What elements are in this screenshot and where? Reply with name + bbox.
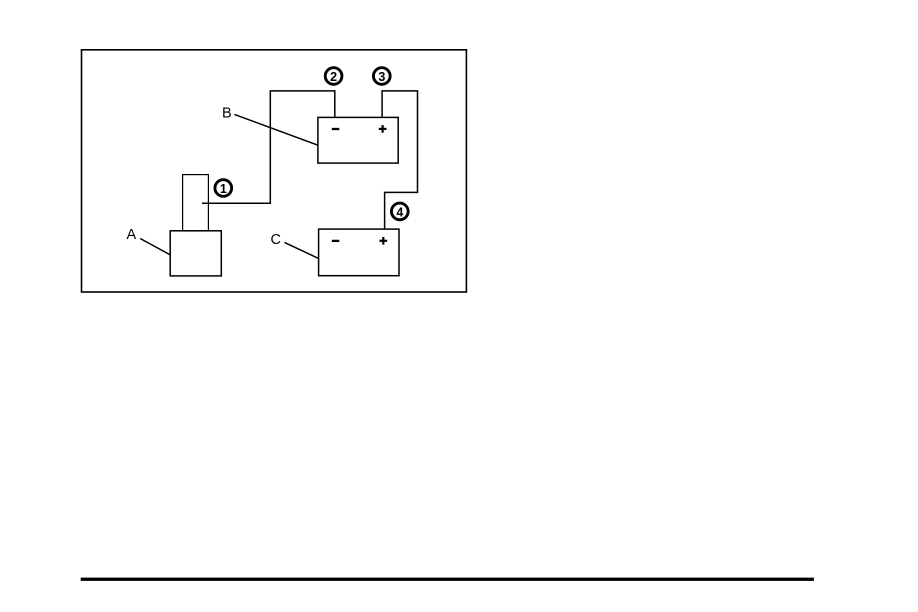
wire from battery B positive to battery C positive terminal	[382, 91, 417, 229]
battery C positive symbol	[380, 237, 388, 245]
battery C negative symbol	[332, 240, 340, 242]
battery B body	[318, 117, 398, 163]
leader line B	[234, 114, 318, 145]
battery C body	[319, 229, 399, 276]
svg-text:B: B	[222, 105, 232, 121]
callout circle 4	[391, 203, 408, 220]
battery B positive symbol	[379, 125, 387, 133]
wire from node 1 to battery B negative terminal	[202, 91, 335, 203]
diagram border frame	[82, 50, 467, 292]
leader line A	[140, 239, 170, 256]
leader line C	[285, 242, 319, 258]
svg-text:2: 2	[330, 70, 337, 84]
svg-text:1: 1	[220, 182, 227, 196]
callout circle 1	[215, 180, 232, 197]
component A terminal post	[183, 175, 209, 231]
callout circle 3	[373, 68, 390, 85]
callout circle 2	[325, 68, 342, 85]
component A body	[170, 231, 221, 276]
svg-text:4: 4	[396, 205, 403, 219]
svg-text:A: A	[127, 227, 137, 243]
svg-text:C: C	[271, 232, 281, 248]
bottom horizontal rule	[81, 578, 814, 581]
svg-text:3: 3	[378, 70, 385, 84]
battery B negative symbol	[332, 128, 340, 130]
